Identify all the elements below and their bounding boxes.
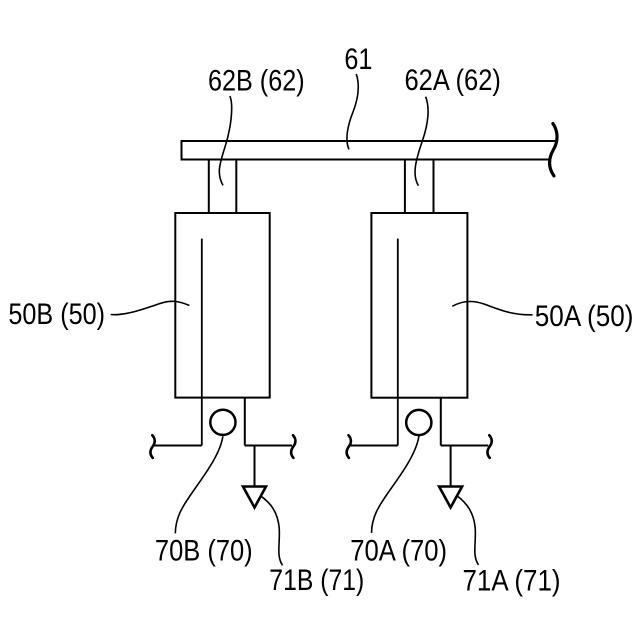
svg-text:50A (50): 50A (50): [535, 299, 634, 332]
svg-text:62B (62): 62B (62): [208, 63, 305, 97]
svg-text:71A (71): 71A (71): [463, 564, 561, 597]
svg-text:50B (50): 50B (50): [8, 297, 105, 331]
svg-text:70A (70): 70A (70): [350, 534, 447, 567]
svg-text:61: 61: [344, 42, 372, 76]
svg-text:62A (62): 62A (62): [405, 63, 501, 96]
svg-text:71B (71): 71B (71): [269, 563, 364, 597]
svg-text:70B (70): 70B (70): [155, 534, 253, 567]
